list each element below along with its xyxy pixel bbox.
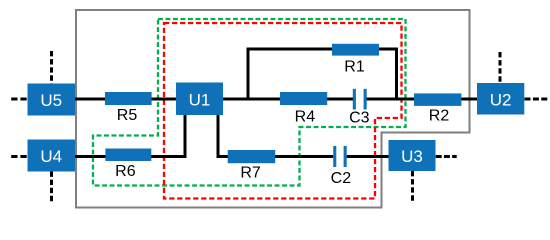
wire: feedback drop vertical to node B: [395, 48, 398, 99]
svg-text:U2: U2: [490, 90, 512, 109]
svg-text:U5: U5: [40, 91, 62, 110]
resistor R2: [414, 93, 461, 124]
resistor R7: [228, 150, 276, 182]
resistor R6: [105, 149, 151, 181]
wire: feedback top rail through R1: [247, 48, 398, 51]
svg-text:R6: R6: [115, 163, 136, 180]
svg-text:R5: R5: [117, 107, 138, 124]
resistor R4: [280, 92, 327, 125]
wire: feedback tap vertical at node A: [247, 48, 250, 99]
block U3: [389, 140, 436, 171]
wire: U1 right leg vertical: [217, 115, 220, 158]
svg-text:R4: R4: [295, 108, 316, 125]
resistor R1: [332, 44, 379, 76]
wire: upper rail U1 to C3 through R4: [223, 98, 353, 101]
svg-text:R7: R7: [240, 165, 261, 182]
wire: dashed input stub left of U5: [11, 98, 27, 101]
svg-text:U3: U3: [401, 147, 423, 166]
wire: dashed stub above U2: [499, 52, 502, 83]
svg-text:C2: C2: [331, 170, 352, 187]
wire: lower rail U1 right leg through R7 to C2: [217, 155, 334, 158]
red dashed group boundary: [164, 23, 402, 199]
wire: dashed input stub left of U4: [11, 155, 27, 158]
capacitor C2: [331, 146, 352, 187]
green dashed group boundary: [93, 19, 406, 186]
capacitor C3: [349, 89, 370, 127]
wire: upper rail C3 to U2 through R2: [367, 98, 478, 101]
block U5: [28, 84, 76, 116]
block U2: [477, 83, 524, 115]
wire: dashed stub below U3: [411, 171, 414, 202]
svg-text:U1: U1: [189, 90, 211, 109]
svg-text:R2: R2: [429, 108, 450, 125]
svg-text:R1: R1: [344, 58, 365, 75]
svg-text:C3: C3: [349, 110, 370, 127]
wire: dashed stub above U5: [50, 51, 53, 84]
wire: upper rail U5 to U1 through R5: [75, 98, 176, 101]
resistor R5: [105, 92, 152, 124]
wire: lower rail U4 through R6 to U1 left leg: [75, 155, 186, 158]
wire: dashed output stub right of U3: [436, 155, 457, 158]
block U1: [176, 83, 223, 116]
outer gray boundary box: [76, 10, 470, 208]
svg-text:U4: U4: [40, 147, 62, 166]
wire: U1 left leg vertical: [184, 115, 187, 158]
wire: dashed output stub right of U2: [525, 98, 548, 101]
wire: dashed stub below U4: [50, 172, 53, 203]
block U4: [28, 140, 76, 172]
wire: lower rail C2 to U3: [347, 155, 389, 158]
